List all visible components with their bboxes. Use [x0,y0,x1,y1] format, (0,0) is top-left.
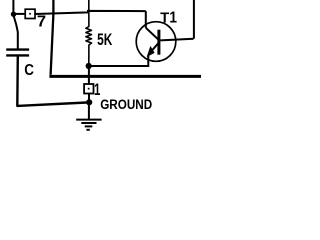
transistor T1 emitter diagonal [148,43,159,55]
svg-text:GROUND: GROUND [100,97,152,113]
wire base lead to right riser [160,39,193,41]
wire emitter: right then up to transistor emitter [89,55,149,66]
transistor T1 base bar [157,30,160,55]
node A junction dot top-left [11,12,16,17]
svg-text:1: 1 [169,10,177,27]
capacitor C plates [6,48,29,50]
transistor T1 circle [136,22,176,62]
svg-text:T: T [160,11,169,27]
resistor R 5K (top lead, coil, bottom lead) [86,0,92,66]
transistor T1 emitter arrowhead [147,46,155,57]
terminal 7 square [25,9,35,18]
ground symbol [76,119,101,121]
node C junction dot ground [86,99,92,105]
wire ground stub [88,102,90,119]
terminal 1 square [84,84,93,94]
wire terminal 1 to ground node [88,94,90,101]
wire capacitor bottom down and right to ground node [17,57,86,106]
svg-text:5K: 5K [97,31,112,49]
wire from junction to terminal square [14,13,26,15]
wire collector drop from top wire [145,11,147,28]
transistor T1 collector diagonal [146,28,159,40]
wire right vertical riser to top edge [193,0,195,39]
svg-text:7: 7 [37,13,46,30]
wire top horizontal with jog at resistor [35,11,146,14]
wire vertical bus left (x=53) from top edge to thick bar [51,0,54,75]
wire left vertical from top edge through junction to capacitor [13,0,17,49]
svg-text:C: C [24,62,34,79]
wire thick ground bus bar [49,75,201,78]
wire from node B down to terminal 1 [88,66,90,84]
node B junction dot at resistor bottom / emitter wire [86,63,92,69]
